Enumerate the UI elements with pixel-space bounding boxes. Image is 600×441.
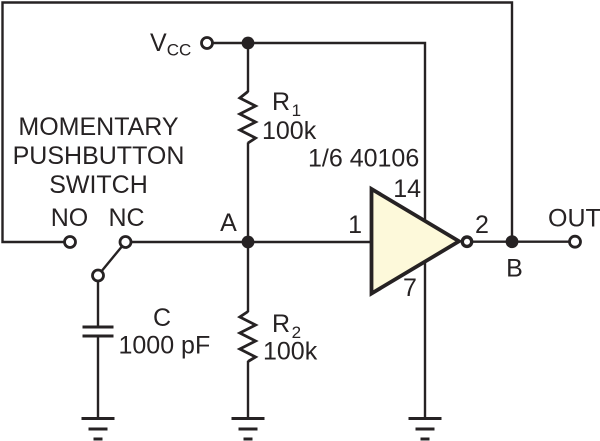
svg-text:100k: 100k [263,338,318,366]
inverter output bubble [462,237,471,246]
node A junction dot [242,236,255,249]
svg-text:2: 2 [475,211,489,239]
capacitor C plates [83,327,114,336]
svg-text:PUSHBUTTON: PUSHBUTTON [13,142,185,170]
terminal OUT [570,236,581,247]
svg-text:OUT: OUT [548,204,600,232]
svg-text:14: 14 [393,175,421,203]
ground under R2 [232,419,265,440]
resistor R2 [240,312,256,362]
wire feedback from node B up, across top, down left side to NO terminal [3,3,513,243]
wire R2 bottom to ground [247,361,249,418]
inverter U1 1/6 40106 triangle [372,189,460,294]
terminal Vcc [202,38,213,49]
switch contact NO [65,237,76,248]
svg-text:C: C [153,304,171,332]
wire Vcc terminal to junction and across to pin 14 [212,43,425,230]
svg-text:MOMENTARY: MOMENTARY [18,113,179,141]
wire capacitor bottom to ground [97,336,99,418]
ground under capacitor [82,419,115,440]
wire node A down to R2 [247,242,249,312]
resistor R1 [240,92,256,144]
svg-text:1/6 40106: 1/6 40106 [308,145,419,173]
svg-text:1000 pF: 1000 pF [119,332,211,360]
wire pole down to capacitor [97,276,99,326]
svg-text:A: A [220,209,237,237]
wire switch arm NC to pole [98,246,123,276]
wire inverter pin 7 down to ground [424,255,426,418]
svg-text:NC: NC [108,204,144,232]
svg-text:100k: 100k [262,117,317,145]
svg-text:1: 1 [348,211,362,239]
svg-text:7: 7 [403,274,417,302]
svg-text:NO: NO [51,204,89,232]
svg-text:B: B [506,255,523,283]
wire NC contact to node A [126,241,249,243]
wire R1 branch: junction down through R1 to node A [247,43,249,92]
switch contact NC [120,237,131,248]
switch pole contact [93,270,104,281]
wire R1 bottom to node A [247,143,249,243]
node B junction dot [506,235,519,248]
ground under inverter pin 7 [409,419,442,440]
wire inverter output to OUT terminal [461,240,575,242]
svg-text:SWITCH: SWITCH [49,171,148,199]
wire node A to inverter input [248,241,372,243]
node junction at Vcc [242,37,255,50]
